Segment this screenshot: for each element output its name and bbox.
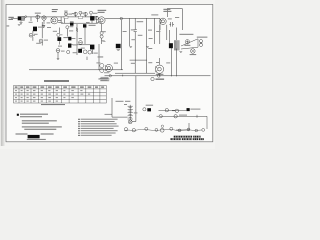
label 1N295 [179, 115, 187, 116]
coil T1 hatched box [22, 16, 25, 20]
capacitor C18 black blob [147, 108, 151, 111]
capacitor C19 black blob [187, 108, 190, 111]
value labels ladder [123, 31, 161, 40]
transistor Q5 output [155, 65, 163, 73]
dial idler above drum [161, 125, 163, 127]
label +9V [156, 79, 165, 80]
capacitor C6 black blob [90, 16, 94, 20]
trimmer C9 [42, 25, 45, 28]
voltage chart caption [44, 80, 69, 81]
row2 circle 2 [172, 109, 179, 112]
label earphone jack [197, 37, 208, 38]
scan shadow left edge [1, 0, 5, 146]
capacitor C15 [169, 22, 174, 27]
coil slug box T2 [64, 16, 68, 18]
wire b- rail left [29, 60, 155, 73]
paper background [0, 0, 215, 149]
capacitor C10 black blob [70, 22, 74, 26]
resistor R1 text [70, 26, 74, 27]
label battery [134, 112, 138, 113]
label above C2 [35, 13, 41, 14]
label right of C19 [190, 109, 200, 110]
title westinghouse models [174, 136, 201, 138]
avc circles [83, 50, 91, 54]
border frame [6, 4, 213, 141]
IF transformer T2 [64, 12, 67, 16]
dial pulley 3 [145, 127, 148, 130]
transistor Q3 2nd IF [98, 17, 105, 24]
copyright sams line2 [100, 80, 109, 81]
line under box [27, 139, 46, 140]
coil slug box L2 [78, 16, 83, 18]
wire speaker drops [160, 47, 177, 77]
output transformer T5 [175, 40, 179, 50]
node junction [120, 17, 122, 19]
wire rail stub [98, 64, 100, 70]
dial pulley 1 [124, 128, 127, 131]
transistor Q6 audio [160, 18, 166, 24]
ground left [18, 24, 21, 27]
row2 thermistor circle [159, 109, 208, 130]
dial pulley 7 [187, 128, 190, 131]
transistor Q4 driver [105, 64, 112, 71]
capacitor C9b black blob [57, 37, 61, 41]
label above S1 [146, 105, 153, 106]
wire battery area [105, 98, 136, 122]
neutralizing cap [57, 33, 63, 36]
label 9v batt [125, 101, 130, 102]
label right of T2 [68, 14, 72, 15]
osc coil circle 2 [39, 39, 43, 43]
wire main signal rail [11, 17, 160, 23]
dial pulley 2 [132, 129, 135, 132]
text C marks row2 left [7, 25, 10, 26]
earphone circle [191, 49, 196, 54]
value labels audio [96, 17, 179, 64]
dial pulley 8 [195, 129, 198, 132]
battery terminal circle [151, 77, 154, 80]
speaker cone [181, 39, 198, 49]
text TO EXT ANT [8, 17, 13, 20]
wire center ladder verticals [121, 18, 154, 50]
label 100K [69, 30, 73, 31]
dial pulley 6 [178, 129, 181, 132]
numbered list [78, 119, 118, 136]
label speaker lead [179, 34, 193, 35]
label on-off sw [116, 101, 124, 102]
node rail right [157, 75, 160, 78]
photofact black box [28, 135, 40, 138]
ground ladder [129, 46, 149, 49]
earphone jack contacts [200, 40, 203, 47]
capacitor C14 black blob [116, 44, 121, 48]
trimmer C5 [84, 12, 87, 16]
capacitor C16 black blob [169, 43, 173, 48]
copyright sams [98, 78, 109, 79]
dial pulley 4 [155, 129, 158, 132]
IF transformer T3 circles [100, 31, 103, 38]
value text ladder [101, 29, 152, 63]
capacitor C11 black blob [68, 44, 71, 48]
coil L3 [95, 16, 98, 20]
label A 2ND IF above Q3 [98, 10, 107, 13]
value text [89, 25, 96, 26]
table header row overlay [15, 87, 104, 88]
driver transformer circles [100, 64, 104, 73]
dial tuning drum [160, 128, 164, 132]
note bullet [17, 114, 19, 116]
value labels row2 [34, 27, 57, 44]
title model numbers [171, 138, 204, 140]
on-off switch circle S1 [143, 108, 146, 111]
dial cord line [125, 129, 202, 130]
tuning cap C2 [36, 15, 40, 20]
antenna trimmer dot [25, 16, 27, 18]
voltage chart table [14, 86, 107, 104]
resistor on bias line [76, 28, 78, 32]
value labels top row [29, 13, 102, 24]
resistor R1 [66, 26, 69, 29]
diode row [160, 115, 207, 118]
trimmer above C6 [90, 11, 93, 16]
capacitor C1 black blob [18, 16, 22, 20]
label A AUDIO above Q6 [163, 9, 171, 12]
label under earphone [190, 54, 197, 55]
osc coil circle [29, 33, 35, 37]
ground speaker [179, 51, 182, 54]
wire volume loop [159, 18, 161, 30]
node rail left [109, 75, 111, 77]
wire audio loop top right [160, 9, 183, 45]
table footnote [41, 104, 65, 105]
coil L2 [74, 12, 77, 16]
label under Q4 [100, 78, 109, 81]
terminal circle [157, 115, 163, 118]
wire dial riser [176, 123, 189, 130]
trimmer circle small [79, 11, 82, 16]
value text [98, 56, 104, 57]
ground under C14 [117, 48, 120, 51]
capacitor C10b black blob [83, 24, 86, 27]
value labels row3 [58, 46, 98, 54]
wire row2 verticals [33, 22, 85, 46]
label B voltage [104, 71, 109, 74]
detector diode circle [56, 49, 60, 53]
capacitor C13 black blob [78, 49, 82, 53]
ground [20, 22, 23, 24]
resistor R5 [102, 40, 106, 42]
coil circle [79, 41, 83, 45]
dial pulley 5 [170, 127, 173, 130]
label PM SPKR [184, 45, 190, 46]
dial end circle [202, 129, 205, 132]
table cell entries [15, 87, 104, 102]
capacitor C8 black blob [33, 27, 37, 32]
value text [73, 44, 78, 45]
notes block [16, 114, 62, 135]
diode circle M1 [67, 50, 70, 53]
wire osc vertical drops row1 [21, 16, 102, 44]
battery switch cluster [128, 105, 133, 124]
label A CONV above Q2 [52, 9, 58, 12]
transistor Q1 [42, 16, 46, 20]
capacitor C12 black blob [90, 45, 94, 50]
wire b- rail right [105, 44, 211, 109]
transistor Q2 converter [51, 17, 58, 24]
speaker voice coil circle [185, 40, 189, 44]
wire row3 drops [57, 24, 99, 64]
value text [63, 37, 68, 38]
capacitor C11b black blob [68, 37, 71, 41]
label under Q5 [156, 74, 164, 75]
label above T2 [64, 11, 67, 12]
label volume control [137, 14, 159, 22]
